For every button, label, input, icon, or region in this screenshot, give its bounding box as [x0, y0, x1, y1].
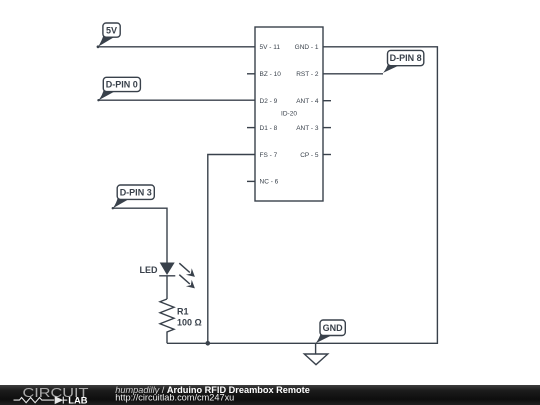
svg-text:D-PIN 0: D-PIN 0: [106, 80, 138, 90]
svg-text:RST - 2: RST - 2: [296, 71, 319, 78]
svg-text:ANT - 4: ANT - 4: [296, 98, 319, 105]
svg-text:GND: GND: [323, 323, 344, 333]
svg-text:BZ - 10: BZ - 10: [260, 71, 282, 78]
svg-text:LED: LED: [140, 265, 159, 275]
svg-text:5V: 5V: [106, 25, 117, 35]
svg-text:GND - 1: GND - 1: [295, 44, 319, 51]
svg-text:D-PIN 8: D-PIN 8: [390, 53, 422, 63]
svg-text:D1 - 8: D1 - 8: [260, 125, 278, 132]
svg-text:ANT - 3: ANT - 3: [296, 125, 319, 132]
svg-text:FS - 7: FS - 7: [260, 152, 278, 159]
svg-text:http://circuitlab.com/cm247xu: http://circuitlab.com/cm247xu: [115, 392, 234, 402]
svg-text:NC - 6: NC - 6: [260, 179, 279, 186]
svg-text:R1: R1: [177, 307, 189, 317]
svg-text:ID-20: ID-20: [281, 111, 297, 118]
svg-text:100 Ω: 100 Ω: [177, 318, 202, 328]
svg-text:D-PIN 3: D-PIN 3: [120, 187, 152, 197]
svg-text:5V - 11: 5V - 11: [260, 44, 281, 51]
svg-text:LAB: LAB: [68, 394, 87, 404]
svg-text:CP - 5: CP - 5: [300, 152, 319, 159]
svg-text:D2 - 9: D2 - 9: [260, 98, 278, 105]
